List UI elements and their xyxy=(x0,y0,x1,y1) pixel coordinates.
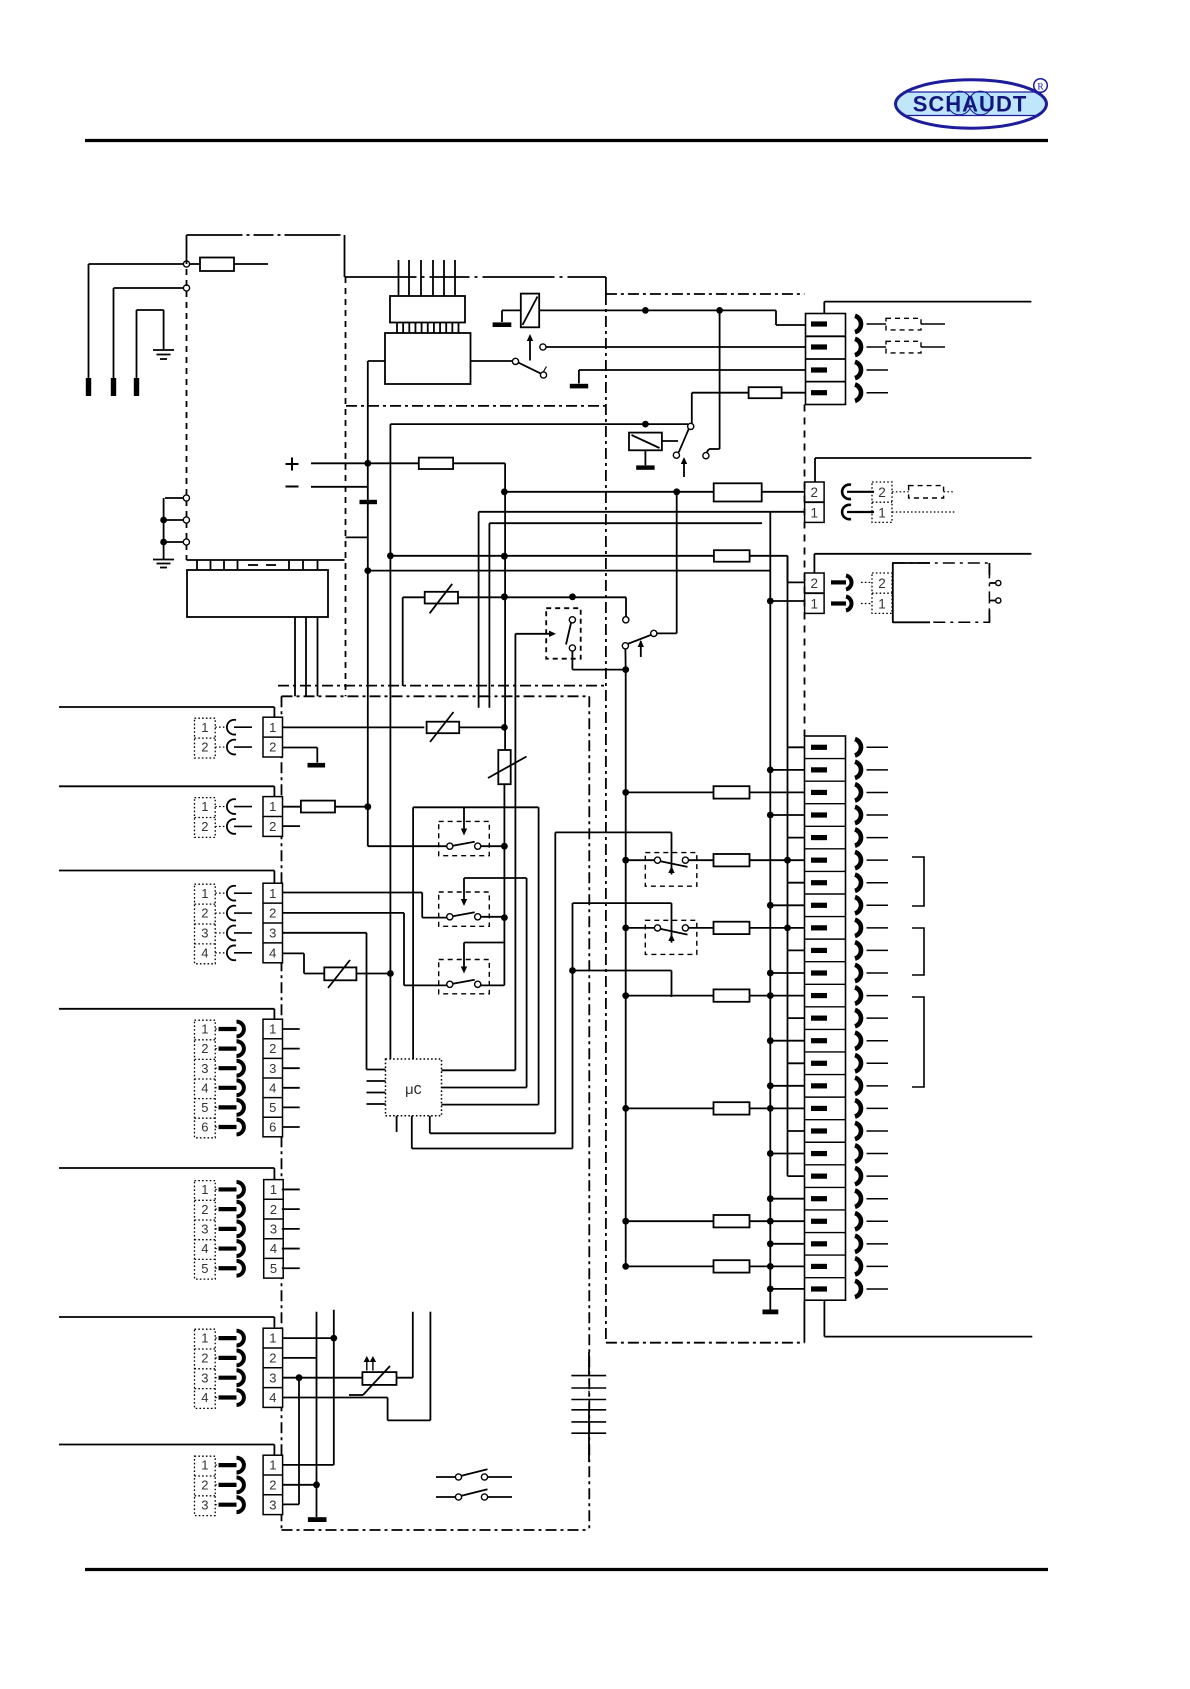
mains terminal L xyxy=(86,378,91,396)
svg-text:1: 1 xyxy=(201,720,208,735)
connector feed wire xyxy=(59,785,274,787)
harness connector (dashed) xyxy=(195,798,216,838)
contact clip xyxy=(219,1395,237,1399)
contact clip xyxy=(227,926,236,941)
harness connector (dashed) xyxy=(195,1181,216,1280)
strip bottom exit wires xyxy=(803,1300,805,1343)
switch S11 (dashed box) xyxy=(645,920,697,954)
svg-text:2: 2 xyxy=(201,1351,208,1366)
block A clips xyxy=(842,485,851,499)
heating element (resistor with arrows) xyxy=(362,1372,396,1385)
mains terminal PE xyxy=(134,378,139,396)
strip sockets xyxy=(855,739,861,755)
svg-text:2: 2 xyxy=(201,1041,208,1056)
fused line to block B pin2 xyxy=(390,555,714,557)
board connector (solid) xyxy=(263,717,283,757)
top rule xyxy=(85,139,1048,142)
relay switch box S5 (dashed) xyxy=(546,608,581,659)
G3 pin2 to switch S8 xyxy=(283,912,405,914)
terminal block B (2/1) xyxy=(805,573,825,613)
S8 actuator xyxy=(464,877,527,879)
contact clip xyxy=(219,1503,237,1507)
S7 contacts wiring xyxy=(481,845,505,847)
svg-text:2: 2 xyxy=(269,906,276,921)
strip feeds from bus x787 xyxy=(787,556,789,1176)
uC left pins xyxy=(367,1069,386,1071)
svg-text:3: 3 xyxy=(269,926,276,941)
contact clip xyxy=(219,1187,237,1191)
connector feed wire xyxy=(59,1167,274,1169)
main positive bus x504 xyxy=(504,463,506,750)
bottom rule xyxy=(85,1568,1048,1571)
charger-AC boundary jog xyxy=(345,276,606,278)
contact clip xyxy=(227,886,236,901)
svg-text:4: 4 xyxy=(269,945,276,960)
G6 pin3 to heating element xyxy=(282,1377,362,1379)
svg-text:6: 6 xyxy=(269,1120,276,1135)
temperature sensor stack xyxy=(571,1375,606,1377)
board connector (solid) xyxy=(263,1328,283,1407)
battery plus symbol xyxy=(286,463,299,465)
svg-text:2: 2 xyxy=(269,819,276,834)
block A top feed xyxy=(815,457,1031,459)
board connector (solid) xyxy=(263,1019,283,1137)
uC right pin wires xyxy=(442,1069,516,1071)
mains terminal N xyxy=(111,378,116,396)
circuit breaker vertical xyxy=(498,750,510,784)
svg-text:µC: µC xyxy=(405,1083,422,1099)
mains wire PE xyxy=(137,309,164,311)
charger bottom pins xyxy=(196,560,198,570)
block A pin1 feed xyxy=(770,511,804,513)
AC fused tails xyxy=(867,323,887,325)
connector feed wire xyxy=(59,1008,274,1010)
svg-text:R: R xyxy=(1037,82,1044,92)
svg-text:4: 4 xyxy=(201,1080,208,1095)
svg-text:1: 1 xyxy=(878,505,886,520)
contact clip xyxy=(219,1066,237,1070)
svg-text:4: 4 xyxy=(201,945,208,960)
G1 pin1 wire with breaker xyxy=(283,726,425,728)
contact clip xyxy=(219,1125,237,1129)
battery plus wire with fuse F1 xyxy=(311,462,419,464)
svg-text:1: 1 xyxy=(201,1331,208,1346)
fuse row y792 xyxy=(622,789,629,796)
switch S1 common xyxy=(471,360,513,362)
block B pin1 feed xyxy=(770,600,804,602)
G6 pin1 link to G7 pin1 xyxy=(282,1337,334,1339)
board connector (solid) xyxy=(263,1455,283,1514)
svg-text:1: 1 xyxy=(269,1458,276,1473)
harness connector (dashed) xyxy=(195,884,216,964)
svg-text:2: 2 xyxy=(201,1202,208,1217)
svg-text:5: 5 xyxy=(270,1261,277,1276)
G1 pin2 to ground xyxy=(283,747,318,749)
svg-text:1: 1 xyxy=(269,720,276,735)
svg-text:4: 4 xyxy=(270,1241,277,1256)
connector feed wire xyxy=(59,706,274,708)
earth symbol PE xyxy=(163,310,165,350)
transformer secondary left wire xyxy=(368,360,385,362)
bus x390 down to microcontroller xyxy=(389,424,391,1059)
solar line to strip xyxy=(368,570,771,572)
contact clip xyxy=(227,819,236,834)
switch S2 xyxy=(688,423,694,429)
svg-text:1: 1 xyxy=(269,799,276,814)
svg-text:5: 5 xyxy=(201,1261,208,1276)
S10 actuator xyxy=(555,831,671,833)
contact clip xyxy=(219,1046,237,1050)
AC section box (dash-dot) xyxy=(605,294,607,1343)
contact clip xyxy=(219,1336,237,1340)
contact clip xyxy=(227,906,236,921)
relay K2 ground xyxy=(644,450,646,465)
switched line y597 with breaker xyxy=(403,596,425,598)
switch S7 (dashed box) xyxy=(439,821,490,855)
electronics module box (dash-dot) xyxy=(278,685,606,687)
svg-text:3: 3 xyxy=(269,1497,276,1512)
relay K2 xyxy=(629,433,662,451)
svg-text:1: 1 xyxy=(201,799,208,814)
Schaudt logo xyxy=(890,79,1054,129)
contact clip xyxy=(227,945,236,960)
svg-text:3: 3 xyxy=(201,1221,208,1236)
relay K2 actuator link xyxy=(662,440,678,442)
S5 output to bus x626 xyxy=(571,651,573,670)
strip feeds from bus x770 xyxy=(767,767,774,774)
block B dotted links xyxy=(861,581,872,583)
harness connector (dashed) xyxy=(195,718,216,758)
node N circle xyxy=(183,285,189,291)
strip ground xyxy=(763,1310,779,1315)
relay K1 xyxy=(521,294,539,328)
svg-text:4: 4 xyxy=(269,1080,276,1095)
contact clip xyxy=(227,799,236,814)
heater wire up xyxy=(397,1377,413,1379)
svg-text:3: 3 xyxy=(269,1061,276,1076)
svg-text:2: 2 xyxy=(811,576,819,591)
mains fuse F23 xyxy=(200,258,234,272)
uC bottom wire to S10 harness xyxy=(429,1116,431,1134)
svg-text:6: 6 xyxy=(201,1120,208,1135)
fuse row y927 xyxy=(714,922,750,934)
earth symbol lower xyxy=(153,559,174,561)
switch S9 (dashed box) xyxy=(439,960,490,994)
switch S8 (dashed box) xyxy=(439,892,490,926)
AC output connector body xyxy=(806,314,846,405)
contact clip xyxy=(219,1356,237,1360)
12V distribution strip body xyxy=(805,736,846,1300)
ground to pin3 xyxy=(578,370,580,383)
transformer upper box xyxy=(390,296,465,323)
S10 output to fuse xyxy=(689,859,714,861)
svg-text:3: 3 xyxy=(269,1370,276,1385)
svg-text:1: 1 xyxy=(269,1022,276,1037)
SPDT switch S6 xyxy=(623,617,629,623)
line block A pin1 xyxy=(479,511,771,513)
svg-text:5: 5 xyxy=(201,1100,208,1115)
board connector (solid) xyxy=(263,797,283,837)
svg-text:3: 3 xyxy=(201,1370,208,1385)
contact clip xyxy=(219,1463,237,1467)
mains wire N xyxy=(114,287,184,289)
AC connector blade pins xyxy=(811,321,827,326)
svg-text:2: 2 xyxy=(270,1202,277,1217)
AC connector sockets xyxy=(855,316,861,332)
svg-text:3: 3 xyxy=(201,926,208,941)
svg-text:2: 2 xyxy=(878,485,886,500)
svg-text:2: 2 xyxy=(201,819,208,834)
svg-text:4: 4 xyxy=(269,1390,276,1405)
svg-text:1: 1 xyxy=(201,1458,208,1473)
S7 actuator xyxy=(413,806,538,808)
uC bottom stub xyxy=(396,1116,398,1132)
contact clip xyxy=(219,1086,237,1090)
bottom switches S12 S13 xyxy=(436,1476,455,1478)
switch S2 common feed xyxy=(691,393,693,424)
block B mating connector (dotted) xyxy=(872,573,892,613)
G7 pin3 wire xyxy=(282,1503,299,1505)
contact clip xyxy=(219,1027,237,1031)
G7 pin1 wire xyxy=(282,1464,334,1466)
svg-text:1: 1 xyxy=(201,886,208,901)
transformer lower box xyxy=(385,333,471,384)
line y523 xyxy=(489,522,762,524)
battery minus symbol xyxy=(286,486,299,488)
S8 contacts wiring xyxy=(481,916,505,918)
solar regulator output wires xyxy=(294,617,296,696)
G7 pin2 to ground xyxy=(282,1484,317,1486)
svg-text:1: 1 xyxy=(811,505,819,520)
G3 pin3 to microcontroller xyxy=(283,932,367,934)
battery minus wire to chassis ground xyxy=(311,486,367,488)
charger sense circles xyxy=(183,495,189,501)
svg-text:2: 2 xyxy=(811,485,819,500)
block A mating connector (dotted) xyxy=(872,482,892,522)
relay K1 output wire xyxy=(539,309,776,311)
line to terminal 2 (block A) with device fuse xyxy=(504,491,713,493)
terminal block A (2/1) xyxy=(805,482,825,522)
board connector (solid) xyxy=(264,1180,284,1279)
svg-text:2: 2 xyxy=(269,740,276,755)
connector feed wire xyxy=(59,870,274,872)
switch S1 blade xyxy=(518,363,541,374)
G5 pin stubs xyxy=(282,1188,300,1190)
node L circle xyxy=(183,261,189,267)
contact clip xyxy=(219,1483,237,1487)
G6 pin4 wire loop xyxy=(282,1397,388,1399)
relay K1 actuator arrow xyxy=(529,336,531,361)
svg-text:2: 2 xyxy=(269,1478,276,1493)
svg-text:3: 3 xyxy=(201,1497,208,1512)
G3 pin1 to switch S7 xyxy=(283,892,423,894)
fuse row y1221 xyxy=(622,1218,629,1225)
switch S1 throw to pin2 xyxy=(540,344,546,350)
transformer primary pins xyxy=(398,260,400,296)
battery box (dash-dot) xyxy=(893,563,990,622)
S11 feed xyxy=(622,925,629,932)
connector feed wire xyxy=(59,1316,274,1318)
microcontroller uC xyxy=(386,1059,442,1116)
contact clip xyxy=(219,1105,237,1109)
harness connector (dashed) xyxy=(195,1020,216,1138)
svg-text:4: 4 xyxy=(201,1241,208,1256)
right region bottom border xyxy=(606,1342,805,1344)
contact clip xyxy=(227,720,236,735)
S11 output to fuse xyxy=(689,927,714,929)
AC connector top exit wire xyxy=(823,302,825,314)
block A fuse (dashed) xyxy=(892,491,909,493)
contact clip xyxy=(219,1207,237,1211)
solar regulator box xyxy=(187,570,328,617)
svg-text:1: 1 xyxy=(270,1182,277,1197)
battery box terminals xyxy=(989,582,995,584)
aux actuator wire xyxy=(573,970,672,972)
G2 pin1 wire with fuse xyxy=(283,806,301,808)
harness connector (dashed) xyxy=(195,1329,216,1408)
svg-text:1: 1 xyxy=(811,596,819,611)
G4 pin stubs xyxy=(283,1028,300,1030)
relay K1 ground xyxy=(502,309,521,311)
relay K2 feed line xyxy=(390,423,688,425)
block B top feed xyxy=(814,553,1031,555)
svg-text:2: 2 xyxy=(201,1478,208,1493)
contact clip xyxy=(219,1376,237,1380)
svg-text:2: 2 xyxy=(201,906,208,921)
harness connector (dashed) xyxy=(195,1456,216,1515)
svg-text:3: 3 xyxy=(270,1221,277,1236)
svg-text:2: 2 xyxy=(269,1351,276,1366)
grouping brackets xyxy=(912,857,924,906)
uC bottom wire to S5/S9 harness xyxy=(411,1116,413,1149)
svg-text:2: 2 xyxy=(269,1041,276,1056)
board connector (solid) xyxy=(263,883,283,963)
block A dotted links xyxy=(858,491,872,493)
fuse row y1266 xyxy=(622,1263,629,1270)
contact clip xyxy=(219,1266,237,1270)
fuse F21 to pin4 xyxy=(692,392,749,394)
fuse row y860 xyxy=(714,854,750,866)
S9 actuator xyxy=(464,942,504,944)
fuse row y995 xyxy=(622,992,629,999)
svg-text:4: 4 xyxy=(201,1390,208,1405)
contact clip xyxy=(219,1246,237,1250)
fuse row y1108 xyxy=(622,1105,629,1112)
mains wire L xyxy=(89,263,184,265)
S5 actuator arrow from microcontroller xyxy=(515,633,549,635)
bus x626 down right column xyxy=(625,670,627,1267)
contact clip xyxy=(219,1227,237,1231)
svg-text:2: 2 xyxy=(201,740,208,755)
svg-text:5: 5 xyxy=(269,1100,276,1115)
svg-text:1: 1 xyxy=(878,596,886,611)
transformer winding ticks xyxy=(396,323,398,334)
block B clips xyxy=(831,580,846,584)
G6 pin2 wire xyxy=(282,1357,317,1359)
svg-text:1: 1 xyxy=(201,1022,208,1037)
connector feed wire xyxy=(59,1444,274,1446)
charger unit box (dash-dot outline) xyxy=(187,234,345,236)
block A pin1 dotted line xyxy=(892,511,955,513)
contact clip xyxy=(227,740,236,755)
S11 actuator xyxy=(573,902,672,904)
solar-battery bus x368 xyxy=(346,536,368,538)
svg-text:1: 1 xyxy=(201,1182,208,1197)
charger right edge dashed xyxy=(345,277,347,696)
G2 pin2 stub xyxy=(283,825,301,827)
svg-text:1: 1 xyxy=(269,886,276,901)
svg-text:SCHAUDT: SCHAUDT xyxy=(913,92,1028,117)
switch S10 (dashed box) xyxy=(645,853,697,887)
svg-text:3: 3 xyxy=(201,1061,208,1076)
svg-text:1: 1 xyxy=(269,1331,276,1346)
svg-text:2: 2 xyxy=(878,576,886,591)
G3 pin4 wire with breaker xyxy=(283,952,305,954)
strip blade pins xyxy=(811,745,827,750)
right border dashed segment xyxy=(804,405,806,737)
S10 feed xyxy=(622,857,629,864)
S9 contacts wiring xyxy=(481,984,505,986)
